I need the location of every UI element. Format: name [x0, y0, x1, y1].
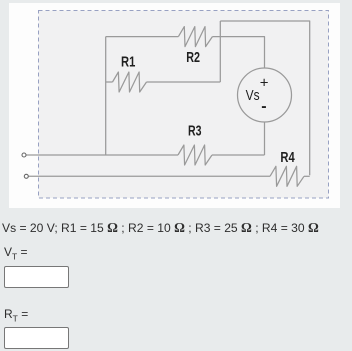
- svg-text:R1: R1: [121, 54, 135, 71]
- svg-text:Vs: Vs: [246, 87, 260, 104]
- svg-text:R4: R4: [280, 149, 295, 166]
- svg-text:-: -: [261, 98, 266, 115]
- svg-text:+: +: [260, 75, 269, 92]
- svg-text:R2: R2: [186, 49, 200, 66]
- svg-text:R3: R3: [188, 123, 202, 140]
